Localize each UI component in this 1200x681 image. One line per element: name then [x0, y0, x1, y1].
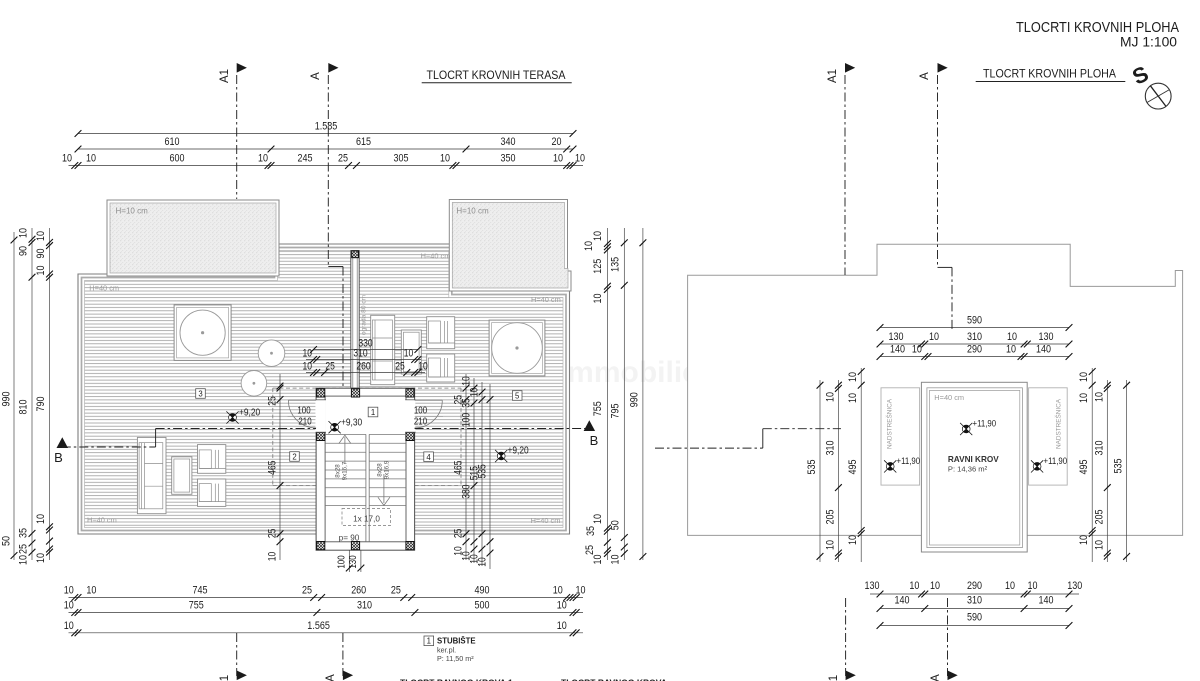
svg-text:10: 10	[825, 392, 837, 402]
left chain 790	[35, 228, 53, 563]
svg-text:H=40 cm: H=40 cm	[87, 516, 117, 525]
svg-text:755: 755	[592, 401, 604, 416]
stair column bottom-left	[317, 542, 325, 550]
svg-text:TLOCRT RAVNOG KROVA: TLOCRT RAVNOG KROVA	[561, 678, 667, 681]
bottom dim row 755/310/500	[64, 600, 583, 616]
right plan dim row1 bottom	[865, 580, 1083, 597]
svg-text:310: 310	[1094, 441, 1106, 456]
svg-text:100: 100	[414, 406, 428, 417]
svg-text:130: 130	[889, 331, 904, 343]
svg-text:490: 490	[475, 585, 490, 597]
svg-text:10: 10	[1005, 580, 1015, 592]
svg-text:290: 290	[967, 344, 982, 356]
right plan dim 590 top	[877, 315, 1073, 331]
svg-text:1: 1	[219, 675, 231, 681]
right plan dim row3 top	[877, 344, 1073, 360]
rp right chain 310/205	[1094, 380, 1111, 562]
stair treads and center wall	[325, 434, 406, 541]
svg-text:5: 5	[515, 392, 520, 401]
left gravel terrace H=10	[107, 200, 279, 276]
bottom dim row total 1.565	[64, 620, 583, 636]
skylight square left with dome circle	[174, 305, 231, 361]
svg-text:10: 10	[35, 231, 47, 241]
svg-text:H=40 cm: H=40 cm	[531, 516, 561, 525]
svg-text:795: 795	[610, 404, 622, 419]
svg-text:10: 10	[1078, 535, 1090, 545]
chimney crosshatch column top	[352, 251, 359, 258]
svg-text:10: 10	[592, 555, 604, 565]
dim cluster right of stair	[453, 374, 494, 569]
svg-text:H=10 cm: H=10 cm	[456, 207, 489, 216]
svg-text:10: 10	[404, 347, 414, 359]
svg-text:+11,90: +11,90	[897, 456, 921, 467]
rp right chain 535	[1113, 380, 1131, 562]
svg-text:10: 10	[847, 393, 859, 403]
svg-text:990: 990	[629, 392, 641, 407]
svg-text:590: 590	[967, 612, 982, 624]
door dim left	[288, 416, 317, 418]
svg-text:10: 10	[557, 620, 567, 632]
dim cluster left of stair	[267, 374, 284, 561]
svg-text:10: 10	[64, 600, 74, 612]
under-stair dimension 100/130	[337, 550, 365, 572]
svg-text:310: 310	[353, 347, 367, 359]
dim line 260	[302, 360, 427, 376]
svg-text:130: 130	[348, 555, 359, 569]
svg-text:10: 10	[929, 331, 939, 343]
round table lower	[241, 371, 267, 397]
svg-text:25: 25	[267, 396, 279, 406]
stair up arrow left flight	[339, 435, 351, 464]
svg-text:TLOCRT RAVNOG KROVA 1: TLOCRT RAVNOG KROVA 1	[400, 678, 513, 681]
svg-text:90: 90	[35, 249, 47, 259]
svg-text:380: 380	[461, 484, 473, 498]
level mark +9,30	[331, 423, 339, 431]
door leaf and swing left	[288, 400, 316, 428]
svg-text:+9,20: +9,20	[239, 407, 260, 419]
svg-text:25: 25	[584, 545, 596, 555]
rp left chain 535	[806, 380, 823, 562]
svg-text:10: 10	[1078, 393, 1090, 403]
svg-text:210: 210	[298, 417, 312, 428]
svg-text:10: 10	[576, 585, 586, 597]
stair column top-left	[317, 389, 325, 397]
round table upper	[258, 340, 285, 367]
svg-text:+11,90: +11,90	[973, 419, 997, 430]
svg-text:A1: A1	[219, 69, 231, 83]
svg-text:2: 2	[292, 453, 296, 462]
svg-text:600: 600	[170, 153, 185, 165]
svg-text:8x28: 8x28	[377, 463, 384, 477]
stair column bottom-middle	[351, 542, 359, 550]
svg-text:10: 10	[86, 153, 96, 165]
door leaf and swing right	[415, 400, 443, 428]
terrace number 2	[290, 452, 300, 462]
svg-text:35: 35	[461, 398, 473, 408]
stair column top-middle	[351, 389, 359, 397]
rp section line A1	[844, 75, 846, 275]
canopy right nadstresnica	[1029, 388, 1068, 485]
svg-text:10: 10	[912, 344, 922, 356]
svg-text:9x16,9: 9x16,9	[384, 460, 391, 479]
rp left chain 495	[847, 368, 865, 562]
svg-text:A1: A1	[827, 69, 839, 83]
stair column top-right	[406, 389, 414, 397]
stair column bottom-right	[406, 542, 414, 550]
svg-text:205: 205	[825, 510, 837, 525]
svg-text:25: 25	[325, 360, 335, 372]
door opening left	[315, 400, 326, 432]
svg-text:500: 500	[475, 600, 490, 612]
svg-text:25: 25	[18, 544, 30, 554]
svg-text:1: 1	[371, 408, 375, 417]
svg-text:A: A	[325, 674, 337, 681]
dim line 310	[302, 347, 421, 363]
svg-text:A: A	[310, 72, 322, 80]
svg-text:10: 10	[1094, 392, 1106, 402]
svg-text:H=40 cm: H=40 cm	[421, 252, 451, 261]
svg-text:25: 25	[391, 585, 401, 597]
section mark B right	[584, 420, 596, 431]
svg-text:P: 11,50 m²: P: 11,50 m²	[437, 654, 474, 663]
svg-text:RAVNI KROV: RAVNI KROV	[948, 455, 999, 464]
rp section line 1 bottom	[845, 598, 847, 676]
dim line 330	[310, 337, 421, 353]
svg-text:10: 10	[35, 553, 47, 563]
svg-text:25: 25	[338, 153, 348, 165]
svg-text:10: 10	[1006, 344, 1016, 356]
flat roof box ravni krov	[921, 382, 1027, 552]
section line A bottom	[342, 633, 344, 676]
svg-text:35: 35	[18, 528, 30, 538]
svg-text:10: 10	[477, 557, 489, 567]
svg-text:TLOCRT KROVNIH PLOHA: TLOCRT KROVNIH PLOHA	[983, 67, 1116, 81]
svg-text:25: 25	[453, 529, 465, 539]
svg-text:10: 10	[302, 360, 312, 372]
svg-text:135: 135	[610, 257, 622, 272]
svg-text:10: 10	[553, 585, 563, 597]
svg-text:B: B	[590, 433, 599, 448]
right chain 755	[583, 228, 611, 565]
svg-text:8x28: 8x28	[335, 464, 342, 478]
left chain 810	[18, 228, 36, 565]
svg-text:10: 10	[610, 555, 622, 565]
svg-text:1.565: 1.565	[307, 620, 330, 632]
section line A top	[327, 75, 329, 267]
svg-text:4: 4	[426, 453, 431, 462]
svg-text:10: 10	[461, 376, 473, 386]
svg-text:590: 590	[967, 315, 982, 327]
svg-text:245: 245	[298, 153, 313, 165]
rp section line A bottom	[947, 598, 949, 676]
stair column mid-right	[406, 432, 414, 440]
terrace number 3	[196, 389, 206, 399]
svg-text:10: 10	[575, 153, 585, 165]
svg-text:1.585: 1.585	[315, 121, 338, 133]
stair room number box 1	[368, 407, 378, 417]
svg-text:140: 140	[895, 595, 910, 607]
right plan roof outline	[688, 244, 1183, 535]
section mark B left	[57, 437, 69, 448]
door opening right	[405, 400, 415, 432]
svg-text:10: 10	[35, 514, 47, 524]
svg-text:10: 10	[302, 347, 312, 359]
svg-text:10: 10	[1007, 331, 1017, 343]
rp right chain 495	[1078, 368, 1096, 562]
svg-text:H=40 cm: H=40 cm	[531, 295, 561, 304]
level mark +11,90 left	[886, 463, 894, 471]
svg-text:1x 17,0: 1x 17,0	[353, 515, 380, 524]
top dim row total 1.585	[75, 121, 577, 137]
svg-text:TLOCRT KROVNIH TERASA: TLOCRT KROVNIH TERASA	[427, 68, 566, 82]
svg-text:A: A	[930, 674, 942, 681]
svg-text:B: B	[54, 450, 63, 465]
svg-text:810: 810	[18, 400, 30, 415]
section line B left	[62, 446, 156, 448]
stair column mid-left	[317, 432, 325, 440]
section line A jog	[328, 266, 343, 268]
svg-text:25: 25	[395, 360, 405, 372]
rp section line B	[655, 447, 763, 449]
right plan dim row2 top	[877, 331, 1073, 347]
svg-text:10: 10	[440, 153, 450, 165]
svg-text:P: 14,36 m²: P: 14,36 m²	[948, 465, 988, 474]
svg-text:25: 25	[302, 585, 312, 597]
svg-text:310: 310	[825, 441, 837, 456]
top dim row 610/615/340/20	[75, 136, 577, 152]
svg-text:1: 1	[828, 675, 840, 681]
svg-text:10: 10	[64, 585, 74, 597]
section line A1 top	[236, 75, 238, 199]
svg-text:+9,30: +9,30	[341, 417, 362, 429]
svg-text:10: 10	[930, 580, 940, 592]
stair lower landing dashed box	[342, 509, 391, 526]
right plan dim row3 bottom	[877, 612, 1073, 629]
svg-text:790: 790	[35, 397, 47, 412]
svg-text:615: 615	[356, 136, 371, 148]
svg-text:+11,90: +11,90	[1044, 456, 1068, 467]
svg-text:90: 90	[18, 246, 30, 256]
svg-text:130: 130	[1039, 331, 1054, 343]
level mark +11,90 right	[1033, 463, 1041, 471]
svg-text:10: 10	[847, 535, 859, 545]
svg-text:610: 610	[165, 136, 180, 148]
right gravel terrace H=10	[449, 200, 571, 292]
level mark +9,20 left	[229, 414, 237, 422]
svg-text:H=10 cm: H=10 cm	[116, 207, 149, 216]
svg-text:10: 10	[418, 360, 428, 372]
rp left chain 310/205	[825, 380, 842, 562]
svg-text:10: 10	[1094, 540, 1106, 550]
svg-text:10: 10	[553, 153, 563, 165]
lounge furniture group right (sofa, table, chairs)	[371, 315, 455, 384]
svg-text:495: 495	[1078, 460, 1090, 475]
legend stubiste	[424, 636, 476, 663]
svg-text:9x16,7: 9x16,7	[342, 461, 349, 480]
svg-text:10: 10	[18, 228, 30, 238]
svg-text:260: 260	[351, 585, 366, 597]
svg-text:STUBIŠTE: STUBIŠTE	[437, 637, 476, 646]
svg-text:260: 260	[356, 360, 370, 372]
svg-text:465: 465	[453, 461, 465, 475]
stair down arrow right flight	[378, 474, 390, 505]
svg-text:990: 990	[1, 392, 13, 407]
svg-text:20: 20	[552, 136, 562, 148]
svg-text:290: 290	[967, 580, 982, 592]
svg-text:10: 10	[592, 514, 604, 524]
terrace number 4	[424, 452, 434, 462]
svg-text:10: 10	[18, 555, 30, 565]
canopy left nadstresnica	[881, 388, 920, 485]
svg-text:H=40 cm: H=40 cm	[934, 393, 964, 402]
svg-text:310: 310	[357, 600, 372, 612]
left plan roof terrace deck (hatched) with outline	[78, 244, 570, 534]
svg-text:10: 10	[35, 266, 47, 276]
svg-text:745: 745	[193, 585, 208, 597]
svg-text:10: 10	[847, 372, 859, 382]
top dim row detail	[62, 153, 585, 169]
svg-text:535: 535	[806, 460, 818, 475]
svg-text:A: A	[919, 72, 931, 80]
svg-text:50: 50	[1, 536, 13, 546]
svg-text:535: 535	[1113, 459, 1125, 474]
skylight square right with dome circle	[489, 320, 545, 376]
svg-text:755: 755	[189, 600, 204, 612]
svg-text:p= 90: p= 90	[339, 534, 360, 543]
svg-text:10: 10	[64, 620, 74, 632]
rp section line A	[937, 75, 939, 267]
svg-text:25: 25	[267, 529, 279, 539]
lounge furniture group left (sofa, table, chairs)	[137, 437, 225, 513]
svg-text:340: 340	[501, 136, 516, 148]
svg-text:10: 10	[557, 600, 567, 612]
level mark +11,90 center	[962, 425, 970, 433]
svg-text:350: 350	[501, 153, 516, 165]
svg-text:125: 125	[592, 259, 604, 274]
door dim right	[415, 416, 443, 418]
bottom dim row detail	[64, 585, 586, 601]
svg-text:465: 465	[267, 461, 279, 475]
svg-text:130: 130	[865, 580, 880, 592]
svg-text:NADSTREŠNICA: NADSTREŠNICA	[1054, 398, 1063, 449]
dashed outline of lower storey	[273, 388, 461, 486]
svg-text:10: 10	[909, 580, 919, 592]
svg-text:10: 10	[469, 388, 481, 398]
svg-text:10: 10	[592, 294, 604, 304]
svg-text:10: 10	[267, 552, 279, 562]
svg-text:495: 495	[847, 460, 859, 475]
right chain 795	[610, 228, 628, 565]
svg-text:10: 10	[1078, 372, 1090, 382]
svg-text:10: 10	[592, 231, 604, 241]
svg-text:310: 310	[967, 331, 982, 343]
svg-text:1: 1	[427, 637, 431, 646]
svg-text:210: 210	[414, 417, 428, 428]
svg-text:205: 205	[1094, 510, 1106, 525]
level mark +9,20 right	[497, 452, 505, 460]
svg-text:100: 100	[337, 555, 348, 569]
svg-text:310: 310	[967, 595, 982, 607]
svg-text:NADSTREŠNICA: NADSTREŠNICA	[885, 398, 894, 449]
svg-text:35: 35	[585, 526, 597, 536]
svg-text:100: 100	[461, 413, 473, 427]
svg-text:H=40 cm: H=40 cm	[89, 284, 119, 293]
chimney wall strip	[351, 251, 359, 389]
svg-text:305: 305	[394, 153, 409, 165]
svg-text:10: 10	[86, 585, 96, 597]
section line B right	[415, 428, 590, 430]
svg-text:50: 50	[610, 520, 622, 530]
svg-text:535: 535	[477, 464, 489, 478]
svg-text:ograda 80 cm: ograda 80 cm	[361, 294, 368, 335]
svg-text:10: 10	[62, 153, 72, 165]
svg-text:10: 10	[1028, 580, 1038, 592]
right plan dim row2 bottom	[877, 595, 1073, 612]
svg-text:MJ 1:100: MJ 1:100	[1120, 35, 1177, 50]
svg-text:100: 100	[297, 406, 311, 417]
svg-text:10: 10	[825, 540, 837, 550]
svg-text:140: 140	[1039, 595, 1054, 607]
svg-text:+9,20: +9,20	[508, 445, 529, 457]
section line 1 bottom	[236, 633, 238, 676]
terrace number 5	[512, 391, 522, 401]
svg-text:10: 10	[583, 241, 595, 251]
staircase outer walls	[316, 388, 415, 550]
left chain 990	[1, 232, 18, 560]
svg-text:140: 140	[1036, 344, 1051, 356]
svg-text:140: 140	[890, 344, 905, 356]
right chain 990	[629, 228, 647, 560]
svg-text:3: 3	[198, 390, 202, 399]
svg-text:130: 130	[1067, 580, 1082, 592]
svg-text:10: 10	[258, 153, 268, 165]
